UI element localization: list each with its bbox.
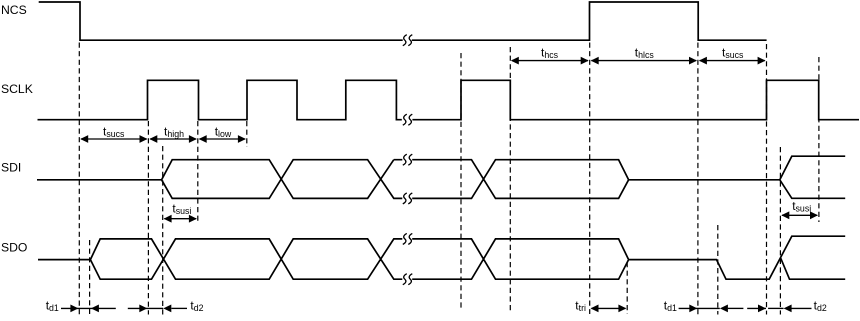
svg-text:NCS: NCS <box>1 3 27 17</box>
svg-text:SCLK: SCLK <box>1 82 33 96</box>
svg-text:SDI: SDI <box>1 161 21 175</box>
svg-text:SDO: SDO <box>1 240 27 254</box>
